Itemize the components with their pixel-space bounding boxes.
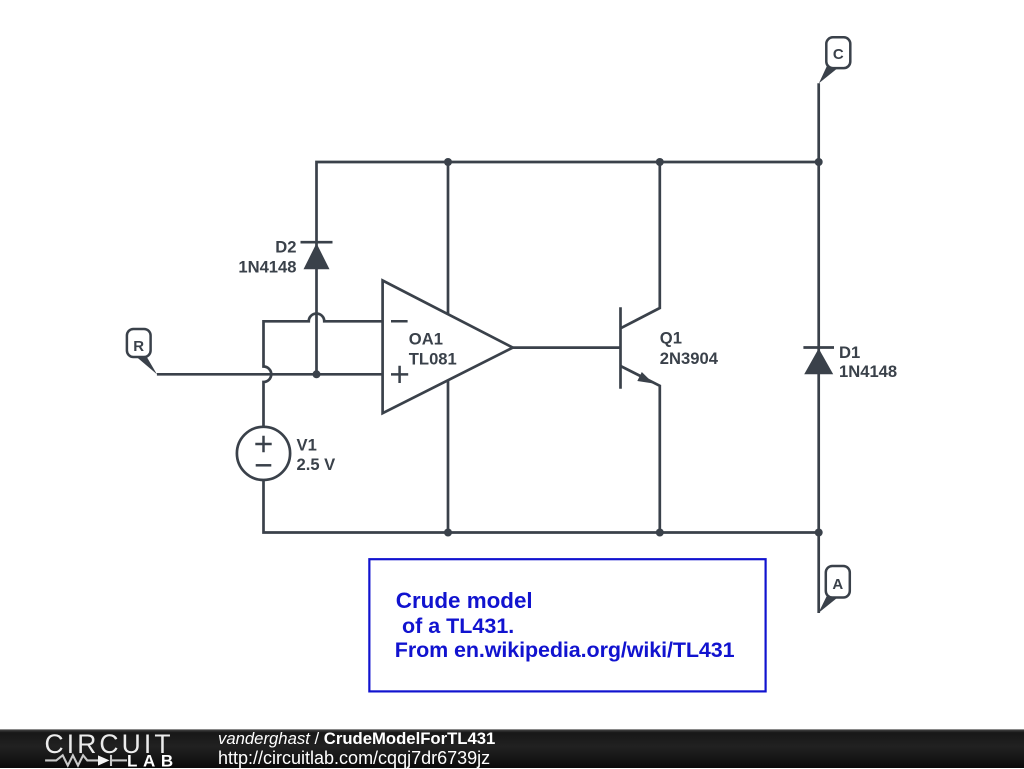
svg-text:of a TL431.: of a TL431. (396, 614, 514, 638)
svg-text:D1: D1 (839, 343, 860, 362)
svg-text:Crude model: Crude model (396, 588, 533, 613)
svg-text:OA1: OA1 (409, 330, 443, 349)
svg-text:1N4148: 1N4148 (238, 257, 296, 276)
svg-text:2N3904: 2N3904 (660, 349, 719, 368)
svg-text:Q1: Q1 (660, 328, 682, 347)
svg-text:D2: D2 (275, 237, 296, 256)
svg-text:C: C (833, 46, 844, 63)
svg-text:LAB: LAB (127, 752, 179, 769)
svg-text:From en.wikipedia.org/wiki/TL4: From en.wikipedia.org/wiki/TL431 (395, 638, 735, 662)
svg-text:1N4148: 1N4148 (839, 362, 897, 381)
svg-text:TL081: TL081 (409, 349, 457, 368)
svg-text:V1: V1 (297, 436, 317, 455)
svg-text:R: R (133, 338, 144, 355)
svg-text:A: A (832, 576, 843, 593)
svg-text:2.5 V: 2.5 V (297, 455, 336, 474)
